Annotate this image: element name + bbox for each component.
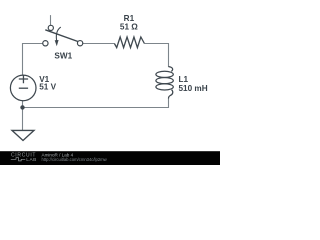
svg-text:LAB: LAB xyxy=(26,157,37,163)
footer bar xyxy=(0,151,220,165)
switch SW1 xyxy=(43,25,83,46)
ground xyxy=(12,130,34,140)
svg-text:L1: L1 xyxy=(179,75,189,84)
svg-text:http://circuitlab.com/cmn34c/l: http://circuitlab.com/cmn34c/lp2mw xyxy=(42,157,108,162)
svg-text:SW1: SW1 xyxy=(54,51,72,60)
wire: V1 bottom through junction down to ground xyxy=(22,100,24,130)
inductor L1 xyxy=(156,67,173,99)
svg-text:510 mH: 510 mH xyxy=(179,84,208,93)
wire: resistor to top-right corner down to inductor xyxy=(144,44,168,68)
wire: switch right terminal to resistor xyxy=(83,43,115,45)
resistor R1 xyxy=(114,37,144,48)
logo CIRCUITLAB xyxy=(11,153,37,163)
voltage source V1 xyxy=(10,75,36,101)
node junction dot xyxy=(20,105,24,109)
svg-text:51 Ω: 51 Ω xyxy=(120,22,138,31)
svg-text:51 V: 51 V xyxy=(39,83,56,92)
wire: inductor bottom to corner and bottom wire to junction xyxy=(23,98,169,107)
wire: switch top throw stub xyxy=(50,15,52,25)
wire top-left: V1 top to switch left terminal xyxy=(23,44,43,76)
